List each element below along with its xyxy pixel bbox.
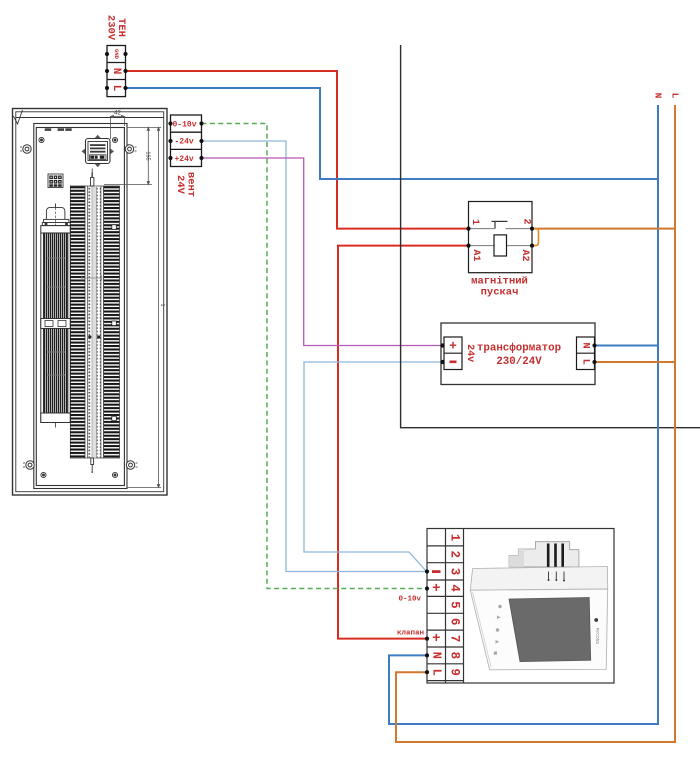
svg-text:0-10v: 0-10v xyxy=(398,596,421,604)
wire light blue: -24v to terminal 3 xyxy=(202,141,428,572)
svg-text:2: 2 xyxy=(448,551,462,559)
svg-text:3: 3 xyxy=(448,568,462,576)
thermostat device photo xyxy=(470,542,607,670)
small terminal grid block on panel xyxy=(48,174,63,188)
svg-text:пускач: пускач xyxy=(481,287,519,299)
svg-text:+: + xyxy=(432,631,440,647)
strip pin - (3) xyxy=(432,570,441,573)
transformer left terminal box xyxy=(444,337,462,370)
svg-text:1: 1 xyxy=(448,534,462,542)
wire red: contactor A1 down to valve terminal 7 xyxy=(338,246,469,639)
heating element: fins xyxy=(70,186,119,458)
contactor internal contact xyxy=(469,221,533,228)
brand logo xyxy=(594,618,598,622)
svg-text:230V: 230V xyxy=(105,15,117,41)
corner screws xyxy=(39,137,118,477)
svg-text:1: 1 xyxy=(469,219,480,225)
svg-text:165: 165 xyxy=(145,151,151,160)
svg-text:A2: A2 xyxy=(519,249,530,261)
connector block xyxy=(509,542,579,567)
transformer right terminal box xyxy=(577,337,595,370)
svg-text:-24v: -24v xyxy=(175,138,194,147)
wire orange: jumper 2 to A2 xyxy=(532,229,539,246)
top bevel of body xyxy=(470,567,607,591)
wire blue: TEN L to supply N line xyxy=(126,88,659,179)
fan motor xyxy=(42,204,70,226)
wire light blue: transformer - to terminal 3 xyxy=(304,362,443,572)
face plate xyxy=(470,589,607,670)
heating element: central tube xyxy=(85,169,104,473)
supply line N (blue vertical) xyxy=(389,105,658,724)
contactor (magnetic starter) K1 xyxy=(469,202,533,273)
touch icons xyxy=(494,605,502,655)
svg-text:42: 42 xyxy=(114,111,121,117)
contactor coil xyxy=(469,235,533,256)
fan grille assembly xyxy=(41,226,71,428)
svg-text:1: 1 xyxy=(159,303,165,306)
wire black: sensor line xyxy=(401,45,700,428)
wire purple: +24v to transformer + xyxy=(202,158,443,346)
outer duct frame xyxy=(13,109,168,496)
svg-text:24V: 24V xyxy=(174,175,186,195)
mid dimension tick on element xyxy=(82,276,102,281)
vent terminal block xyxy=(171,115,202,167)
transformer caption xyxy=(477,342,561,369)
small pins on bevel xyxy=(549,572,565,580)
wire orange: transformer L to supply L xyxy=(595,361,676,363)
svg-text:N: N xyxy=(429,652,443,659)
tube bottom pin xyxy=(91,458,94,465)
svg-text:9: 9 xyxy=(448,668,462,676)
heater module panel xyxy=(34,124,127,489)
svg-text:L: L xyxy=(580,359,592,365)
svg-text:5: 5 xyxy=(448,601,462,609)
svg-text:N: N xyxy=(653,93,664,99)
dimension 165 xyxy=(104,127,161,184)
wire orange: contactor 2 to supply L xyxy=(532,228,675,230)
svg-text:7: 7 xyxy=(448,635,462,643)
screen xyxy=(509,598,591,662)
svg-text:трансформатор: трансформатор xyxy=(477,342,561,355)
grille divider band xyxy=(41,319,71,329)
svg-text:+: + xyxy=(432,581,440,597)
svg-text:+: + xyxy=(449,339,457,354)
transformer - pin xyxy=(450,361,457,364)
svg-text:N: N xyxy=(110,68,122,75)
svg-text:2: 2 xyxy=(521,218,532,224)
svg-text:N: N xyxy=(580,342,592,348)
grille panel lower xyxy=(44,329,68,414)
svg-text:GND: GND xyxy=(113,49,120,60)
tube top connector xyxy=(91,178,94,187)
svg-text:+24v: +24v xyxy=(175,155,194,164)
grille panel upper xyxy=(44,233,68,319)
svg-text:4: 4 xyxy=(448,584,462,592)
label TEN 230V xyxy=(105,15,128,41)
contactor caption xyxy=(471,276,528,299)
roughness flag symbol xyxy=(14,110,23,124)
label vent 24V xyxy=(174,172,197,197)
svg-text:MYCOND: MYCOND xyxy=(594,628,600,645)
svg-text:A1: A1 xyxy=(470,249,481,261)
svg-text:24v: 24v xyxy=(464,344,475,362)
wire blue: transformer N to supply N xyxy=(595,345,659,347)
svg-text:клапан: клапан xyxy=(397,630,424,638)
svg-text:0-10v: 0-10v xyxy=(173,120,197,129)
svg-text:L: L xyxy=(429,669,443,676)
flange nuts xyxy=(20,145,138,469)
svg-text:L: L xyxy=(110,85,122,92)
heater unit technical drawing (duct heater) xyxy=(13,109,168,496)
thermostat box with terminal strip xyxy=(427,529,614,684)
svg-text:230/24V: 230/24V xyxy=(496,356,542,368)
svg-text:L: L xyxy=(670,93,681,99)
wire green dashed: 0-10v control xyxy=(202,124,428,589)
panel top tabs xyxy=(45,128,52,131)
svg-text:6: 6 xyxy=(448,618,462,626)
control box on panel xyxy=(82,135,115,167)
svg-text:8: 8 xyxy=(448,652,462,660)
fin clips xyxy=(112,225,117,421)
dimension full height xyxy=(127,127,161,487)
supply line L (orange vertical) xyxy=(396,105,675,742)
strip numbers 1-9 xyxy=(448,534,462,676)
transformer 230/24V xyxy=(441,323,595,385)
terminal block TEN 230V xyxy=(107,46,126,97)
wire red: TEN N to contactor terminal 1 xyxy=(126,71,469,229)
dimension 42 xyxy=(111,115,125,139)
